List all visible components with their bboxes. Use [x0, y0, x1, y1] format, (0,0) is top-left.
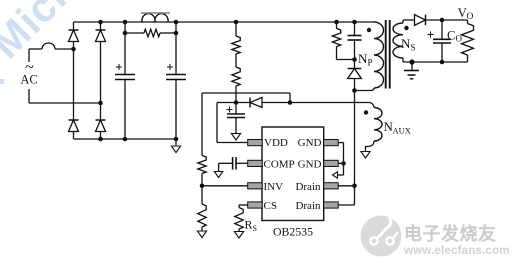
wire: AC neutral lead	[29, 89, 101, 103]
node: output cap bottom	[440, 60, 445, 65]
capacitor snubber C4	[348, 22, 362, 60]
wire: diode anode to aux winding top	[262, 102, 370, 104]
transformer aux winding Naux	[366, 103, 383, 152]
svg-text:GND: GND	[298, 159, 322, 171]
svg-text:INV: INV	[264, 181, 284, 193]
phase dot Np	[367, 28, 371, 32]
wire: DC negative bottom rail	[74, 138, 177, 140]
node: snubber R top	[334, 20, 339, 25]
node: drain junction	[352, 184, 357, 189]
ground: aux winding	[361, 152, 370, 159]
ground: IC GND (left arrow)	[333, 172, 338, 178]
resistor load R7	[462, 20, 474, 62]
pin GND2 pad	[324, 160, 339, 166]
node: INV divider tap	[200, 184, 205, 189]
wire: Drain1 to switch node	[338, 185, 354, 187]
pin Drain2 pad	[324, 202, 339, 208]
capacitor bulk C1 (electrolytic)	[115, 22, 135, 139]
diode output rectifier D6	[425, 15, 427, 26]
diode clamp D5	[348, 60, 362, 91]
transformer secondary winding Ns	[393, 20, 403, 62]
node: C2 on RL lower path	[174, 31, 179, 36]
transformer core	[386, 20, 390, 89]
node: snubber C top	[352, 20, 357, 25]
capacitor bulk C2 (electrolytic)	[166, 22, 186, 139]
svg-text:GND: GND	[298, 137, 322, 149]
wire: aux voltage sense line	[202, 93, 290, 156]
resistor Rs (current sense)	[235, 208, 243, 232]
pin Drain1 pad	[324, 183, 339, 189]
node: bridge right top	[98, 20, 103, 25]
svg-text:AUX: AUX	[393, 126, 411, 136]
diode bridge D2 (top-right)	[96, 29, 106, 31]
diode bridge D1 (top-left)	[69, 29, 79, 31]
wire: secondary top to output diode	[403, 19, 415, 21]
node: C2 top on rail	[174, 20, 179, 25]
svg-text:P: P	[368, 58, 373, 68]
ground: secondary earth	[404, 62, 419, 79]
svg-text:COMP: COMP	[264, 159, 295, 171]
diode VDD rectifier (from aux winding)	[249, 98, 251, 108]
pin COMP pad	[248, 160, 263, 166]
AC source label	[20, 59, 37, 87]
wire: GND pins tie	[338, 143, 344, 175]
node: bulk cap1 bottom	[123, 137, 128, 142]
node: aux sense tap	[288, 100, 293, 105]
pin GND1 pad	[324, 140, 339, 146]
label Co	[447, 29, 463, 44]
svg-text:C: C	[447, 29, 455, 43]
resistor startup R2	[232, 22, 240, 67]
wire: VDD node down to VDD pin	[217, 103, 248, 143]
svg-text:S: S	[411, 43, 416, 53]
node: GND tie	[341, 161, 346, 166]
label Np	[358, 51, 373, 68]
resistor startup R3	[232, 67, 240, 103]
node: secondary ground tap	[409, 59, 414, 64]
label Rs	[245, 218, 257, 234]
node: startup chain on rail	[234, 20, 239, 25]
phase dot Ns	[404, 26, 408, 30]
node: bottom rail end	[174, 137, 179, 142]
label Vo	[458, 5, 474, 22]
svg-text:CS: CS	[264, 200, 277, 212]
ground: COMP cap	[214, 172, 222, 178]
wire: AC hot lead with fuse bump	[29, 43, 72, 62]
resistor damping R1 (parallel with L1)	[125, 29, 176, 37]
phase dot Naux	[364, 110, 368, 114]
node: C1 on RL lower path	[123, 31, 128, 36]
wire: HV positive top rail	[74, 21, 375, 23]
svg-text:OB2535: OB2535	[273, 225, 313, 239]
svg-text:R: R	[245, 218, 253, 232]
capacitor COMP C3	[219, 157, 248, 171]
capacitor VDD (electrolytic)	[227, 103, 246, 134]
resistor snubber R6	[332, 22, 354, 60]
node: VDD supply node	[234, 100, 239, 105]
wire: CS pin to Rs	[239, 205, 248, 208]
wire: output node	[426, 19, 468, 21]
node: C1 top on rail	[123, 20, 128, 25]
svg-text:S: S	[253, 224, 257, 233]
node: output cap top	[440, 18, 445, 23]
transformer primary winding Np	[374, 22, 384, 88]
inductor filter L1 (on top rail, with core bar)	[141, 13, 170, 22]
wire: to primary winding bottom	[355, 88, 375, 91]
svg-text:Drain: Drain	[295, 181, 321, 193]
svg-text:N: N	[358, 51, 368, 66]
label Naux	[384, 119, 411, 136]
node: snubber bottom junction	[352, 57, 357, 62]
ground: VDD cap	[231, 134, 240, 141]
pin CS pad	[248, 202, 263, 208]
node: bridge right bottom	[98, 137, 103, 142]
op-amp U1 OB2535 controller body	[262, 127, 324, 221]
wire: VDD node horizontal	[217, 102, 250, 104]
wire: tap to INV pin	[202, 185, 248, 187]
wire: switch node vertical (primary return)	[354, 91, 356, 186]
ground: Rs	[234, 232, 243, 239]
wire: divider middle	[201, 174, 203, 186]
watermark blue Micro	[0, 0, 99, 68]
node: primary bottom junction	[352, 88, 357, 93]
resistor sense upper R4	[198, 156, 206, 174]
wire: secondary bottom rail	[403, 61, 468, 63]
pin VDD pad	[248, 140, 263, 146]
svg-text:VDD: VDD	[264, 137, 288, 149]
ground: primary DC return	[171, 139, 180, 153]
diode bridge D4 (bottom-right)	[96, 119, 106, 121]
svg-text:AC: AC	[20, 73, 37, 87]
ground: INV divider	[197, 231, 206, 238]
svg-text:Drain: Drain	[295, 200, 321, 212]
label Ns	[401, 36, 416, 53]
wire: bridge right branch	[100, 22, 102, 139]
wire: Drain2 to switch node	[338, 186, 354, 205]
node: AC hot to bridge junction	[71, 47, 76, 52]
diode bridge D3 (bottom-left)	[69, 119, 79, 121]
capacitor output Co	[428, 20, 452, 62]
pin INV pad	[248, 183, 263, 189]
node: AC neutral to bridge junction	[98, 101, 103, 106]
svg-text:N: N	[401, 36, 411, 51]
wire: bridge left branch	[73, 22, 75, 139]
resistor sense lower R5	[198, 186, 206, 231]
